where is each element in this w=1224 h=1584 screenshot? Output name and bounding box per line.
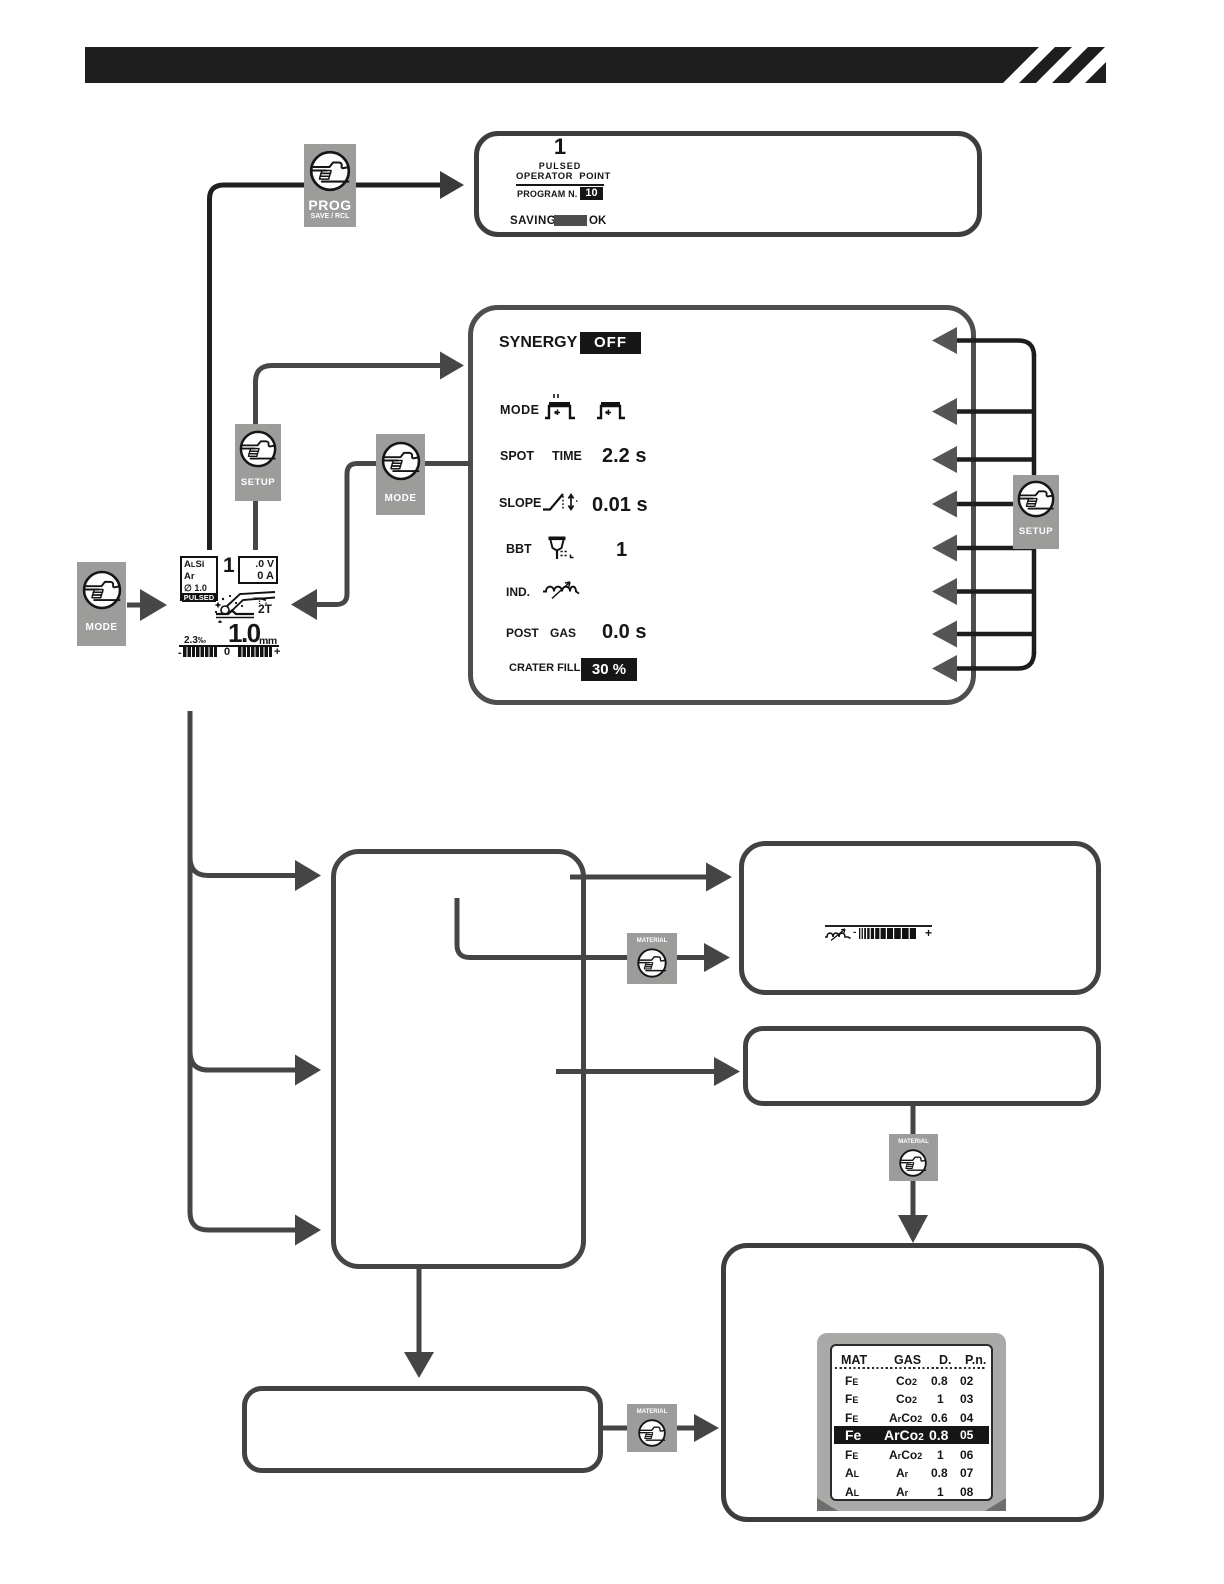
mode icon 2 <box>595 397 627 421</box>
button MODE right <box>376 434 425 515</box>
bottom left screen <box>242 1386 603 1473</box>
material box <box>180 556 218 601</box>
top black title bar with hazard slashes <box>85 47 1106 83</box>
wire: tall box top-right arrow <box>570 875 708 880</box>
wire: branch 2 <box>190 1051 297 1070</box>
right bus: verticals and 8 row lines <box>956 341 1034 357</box>
mode icon 1 <box>542 393 578 421</box>
arrowhead into screen 1 <box>440 171 464 199</box>
wire: branch 1 <box>190 857 297 876</box>
wire: MODE right button left path into display <box>316 464 376 605</box>
screen 2R <box>743 1026 1101 1106</box>
slope icon <box>542 491 580 513</box>
arrowhead into display right side <box>291 589 317 620</box>
button MATERIAL 1 <box>627 933 677 984</box>
wire: MODE left stub <box>127 603 141 608</box>
screen 1R content : wire speed correction <box>739 841 1101 995</box>
screen 1 : save program screen <box>474 131 982 237</box>
8 gray arrowheads into synergy screen right edge <box>932 327 957 354</box>
arrowhead MODE left into display <box>140 589 167 621</box>
wire: tall box material path <box>457 898 705 958</box>
hand icon symbol <box>0 0 1 1</box>
button PROG <box>304 144 356 227</box>
material table in bottom right screen <box>817 1333 1006 1511</box>
wire: display panel up to PROG row <box>210 185 447 550</box>
button MODE left <box>77 562 126 646</box>
main display panel <box>178 550 282 660</box>
wire: left bus below display <box>190 711 297 1230</box>
tall process box <box>331 849 586 1269</box>
ind wavy icon <box>542 580 580 600</box>
screen 2 : setup/synergy screen <box>468 305 976 705</box>
arrowheads of branches into tall box <box>295 860 321 891</box>
button MATERIAL 2 <box>889 1134 938 1181</box>
screen 2 synergy content <box>468 305 976 705</box>
bottom right screen : material table <box>721 1243 1104 1522</box>
wire: bottom-left screen to MATERIAL to big screen <box>603 1426 697 1431</box>
wire: screen2R down through MATERIAL <box>911 1106 916 1216</box>
V/A box <box>238 556 278 584</box>
torch icon <box>214 590 276 623</box>
wire: MODE right button to synergy screen border <box>425 461 471 466</box>
wire: SETUP left button to synergy screen <box>253 501 258 550</box>
screen 1R : wire speed correction <box>739 841 1101 995</box>
button SETUP left <box>235 424 281 501</box>
arrowhead into synergy screen <box>440 352 464 380</box>
wire: tall box middle-right arrow <box>556 1069 716 1074</box>
wire: tall box bottom down <box>417 1266 422 1354</box>
screen 1 content <box>474 131 982 237</box>
bbt torch icon <box>548 536 578 563</box>
button SETUP right <box>1013 475 1059 549</box>
button MATERIAL 3 <box>627 1404 677 1452</box>
